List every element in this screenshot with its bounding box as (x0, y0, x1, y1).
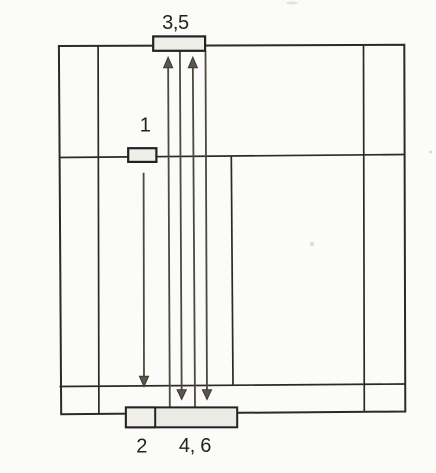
arrow down C head (177, 390, 186, 400)
scan speckle (286, 2, 298, 5)
middle horizontal service line (59, 155, 404, 158)
right sideline (inner vertical) (363, 45, 366, 412)
svg-text:1: 1 (140, 114, 151, 136)
arrow 1-to-2 head (down) (139, 376, 148, 386)
marker 1 (mid feeder box) (128, 148, 156, 162)
marker 2/4,6 (bottom box) (126, 407, 237, 427)
arrow up D shaft (193, 59, 195, 407)
scan speckle (429, 151, 432, 154)
arrow down E head (202, 390, 211, 400)
arrow up B shaft (168, 59, 170, 407)
svg-text:4, 6: 4, 6 (179, 435, 211, 457)
left sideline (inner vertical) (97, 46, 100, 414)
bottom inner horizontal line (60, 384, 405, 387)
scan speckle (310, 242, 314, 246)
arrow down E shaft (206, 51, 208, 399)
middle-right vertical line (231, 156, 233, 385)
arrow up B head (164, 57, 173, 68)
bottom box left cell (126, 407, 155, 427)
arrow 1-to-2 shaft (down) (143, 173, 145, 385)
svg-text:3,5: 3,5 (162, 12, 189, 34)
arrow up D head (188, 57, 197, 68)
court outer boundary (59, 45, 405, 414)
arrow down C shaft (180, 51, 182, 399)
marker 3,5 (top feeder box) (153, 36, 205, 50)
svg-text:2: 2 (136, 435, 147, 457)
